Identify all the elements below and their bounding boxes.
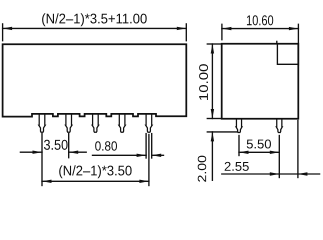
dimension 10.00 extension line bottom — [207, 118, 221, 120]
dimension (N/2-1)*3.50 arrow left — [42, 180, 52, 183]
label 3.50 — [44, 140, 68, 150]
front pin 1 — [39, 114, 46, 132]
dimension (N/2-1)*3.50 extension line pin5 center — [148, 135, 150, 186]
dimension 5.50 line — [239, 151, 279, 153]
label 2.55 — [225, 162, 249, 171]
dimension (N/2-1)*3.50 arrow right — [139, 180, 149, 183]
side view body outline with top-right notch — [222, 44, 299, 119]
front pin 4 — [119, 114, 126, 132]
dimension 2.55 arrow at pin2 center — [270, 172, 280, 175]
dimension 0.80 extension line pin5 left edge — [145, 134, 147, 158]
dimension 5.50 extension line pin1 center — [238, 136, 240, 156]
dimension 10.00 arrow bottom — [211, 109, 214, 119]
dimension 2.55 line — [222, 173, 320, 175]
dimension 5.50 arrow left — [239, 151, 249, 154]
dimension (N/2-1)*3.5+11.00 extension line right — [185, 24, 187, 41]
side pin 1 — [236, 119, 242, 133]
dimension 3.50 line left tail — [20, 151, 42, 153]
dimension (N/2-1)*3.5+11.00 arrow left — [3, 27, 13, 30]
label 10.00 rotated — [199, 64, 208, 100]
dimension 10.60 line — [222, 28, 299, 30]
label 0.80 — [95, 141, 117, 150]
dimension 10.60 extension line left — [221, 24, 223, 39]
dimension 2.55 arrow at body edge — [298, 172, 308, 175]
dimension 3.50 line right tail — [69, 151, 87, 153]
dimension 0.80 leader line left — [93, 154, 147, 156]
dimension 3.50 extension line pin1 (shared with (N/2-1)*3.50) — [41, 134, 43, 186]
dimension (N/2-1)*3.50 line — [42, 180, 149, 182]
dimension 0.80 arrow left — [137, 154, 147, 157]
dimension 3.50 extension line pin2 — [68, 134, 70, 158]
front pin 3 — [92, 114, 99, 132]
front pin 5 — [146, 114, 153, 132]
dimension (N/2-1)*3.5+11.00 arrow right — [177, 27, 187, 30]
dimension 2.00 line tail below with up arrow — [211, 132, 213, 180]
dimension (N/2-1)*3.5+11.00 line — [3, 27, 187, 29]
dimension 10.60 arrow right — [289, 27, 299, 30]
dimension 2.55 extension line body right edge — [297, 121, 299, 178]
side view notch corner tick — [276, 41, 278, 43]
label 5.50 — [247, 139, 271, 148]
dimension 0.80 line right tail — [152, 154, 164, 156]
side pin 2 — [276, 119, 282, 133]
dimension (N/2-1)*3.5+11.00 extension line left — [2, 24, 4, 41]
dimension 3.50 arrow left — [33, 151, 43, 154]
dimension 2.00 arrow up — [211, 132, 214, 142]
dimension 10.00 arrow top — [211, 44, 214, 54]
dimension 2.00 extension line at pin tip level — [207, 131, 237, 133]
label 2.00 rotated — [198, 156, 207, 182]
dimension 3.50 arrow right — [69, 151, 79, 154]
dimension 10.00 line — [211, 44, 213, 119]
label (N/2-1)*3.5+11.00 — [42, 13, 147, 26]
front pin 2 — [65, 114, 72, 132]
dimension 5.50 arrow right — [270, 151, 280, 154]
dimension 0.80 extension line pin5 right edge — [151, 134, 153, 158]
dimension 10.60 extension line right — [297, 24, 299, 65]
dimension 10.60 arrow left — [222, 27, 232, 30]
side view notch inner lines — [277, 44, 298, 65]
front view body outline — [3, 44, 187, 116]
label 10.60 — [247, 15, 273, 25]
label (N/2-1)*3.50 — [59, 165, 131, 178]
dimension 5.50 / 2.55 extension line pin2 center — [278, 136, 280, 178]
dimension 0.80 arrow right — [152, 154, 162, 157]
dimension 10.00 extension line top — [207, 43, 221, 45]
